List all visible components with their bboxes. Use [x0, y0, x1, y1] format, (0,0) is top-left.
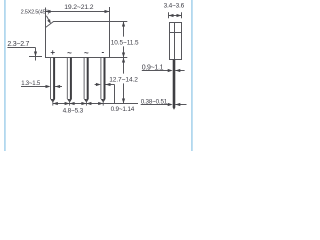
svg-text:0.9~1.14: 0.9~1.14 [111, 106, 135, 113]
pin 4 [101, 58, 106, 106]
chain dimension arrows 4.8~5.3 [53, 102, 58, 105]
dimension line 19.2~21.2 [46, 11, 110, 13]
svg-text:19.2~21.2: 19.2~21.2 [64, 4, 93, 11]
svg-text:12.7~14.2: 12.7~14.2 [109, 77, 138, 84]
extension line right (body width) [109, 7, 111, 22]
svg-text:10.5~11.5: 10.5~11.5 [111, 39, 139, 46]
chamfer leader arrow [46, 16, 49, 22]
side view internal vertical line [174, 23, 176, 60]
side view internal horizontal line [170, 32, 182, 34]
seating tick line at body bottom left [29, 56, 42, 58]
svg-text:+: + [50, 48, 55, 57]
dimension line 10.5~11.5 [123, 22, 125, 37]
extension line left (body width) [45, 8, 47, 28]
dimension line 12.7~14.2 (pin length) [123, 58, 125, 74]
svg-text:3.4~3.6: 3.4~3.6 [164, 3, 185, 10]
svg-text:4.8~5.3: 4.8~5.3 [63, 107, 84, 114]
svg-text:2.5X2.5(45°): 2.5X2.5(45°) [21, 9, 50, 15]
svg-text:~: ~ [84, 48, 89, 57]
pin 1 [50, 58, 55, 106]
right page border (light blue) [191, 0, 193, 151]
svg-text:-: - [101, 47, 104, 56]
pin 3 [84, 58, 89, 106]
left page border (light blue) [4, 0, 6, 151]
extension line y=21.5 body top right [110, 21, 128, 23]
side view pin [173, 60, 176, 108]
svg-text:~: ~ [67, 48, 72, 57]
extension line y=57.5 body bottom right [110, 57, 128, 59]
side view width dimension ticks and arrows [168, 12, 170, 18]
pin 2 [67, 58, 72, 106]
dimension 0.9~1.14 (pin 4 thickness) with leader [95, 84, 97, 86]
front view body outline with chamfer [46, 22, 110, 58]
pin tip extension line [53, 103, 138, 105]
side view body [170, 23, 182, 60]
svg-text:2.3~2.7: 2.3~2.7 [7, 41, 29, 48]
